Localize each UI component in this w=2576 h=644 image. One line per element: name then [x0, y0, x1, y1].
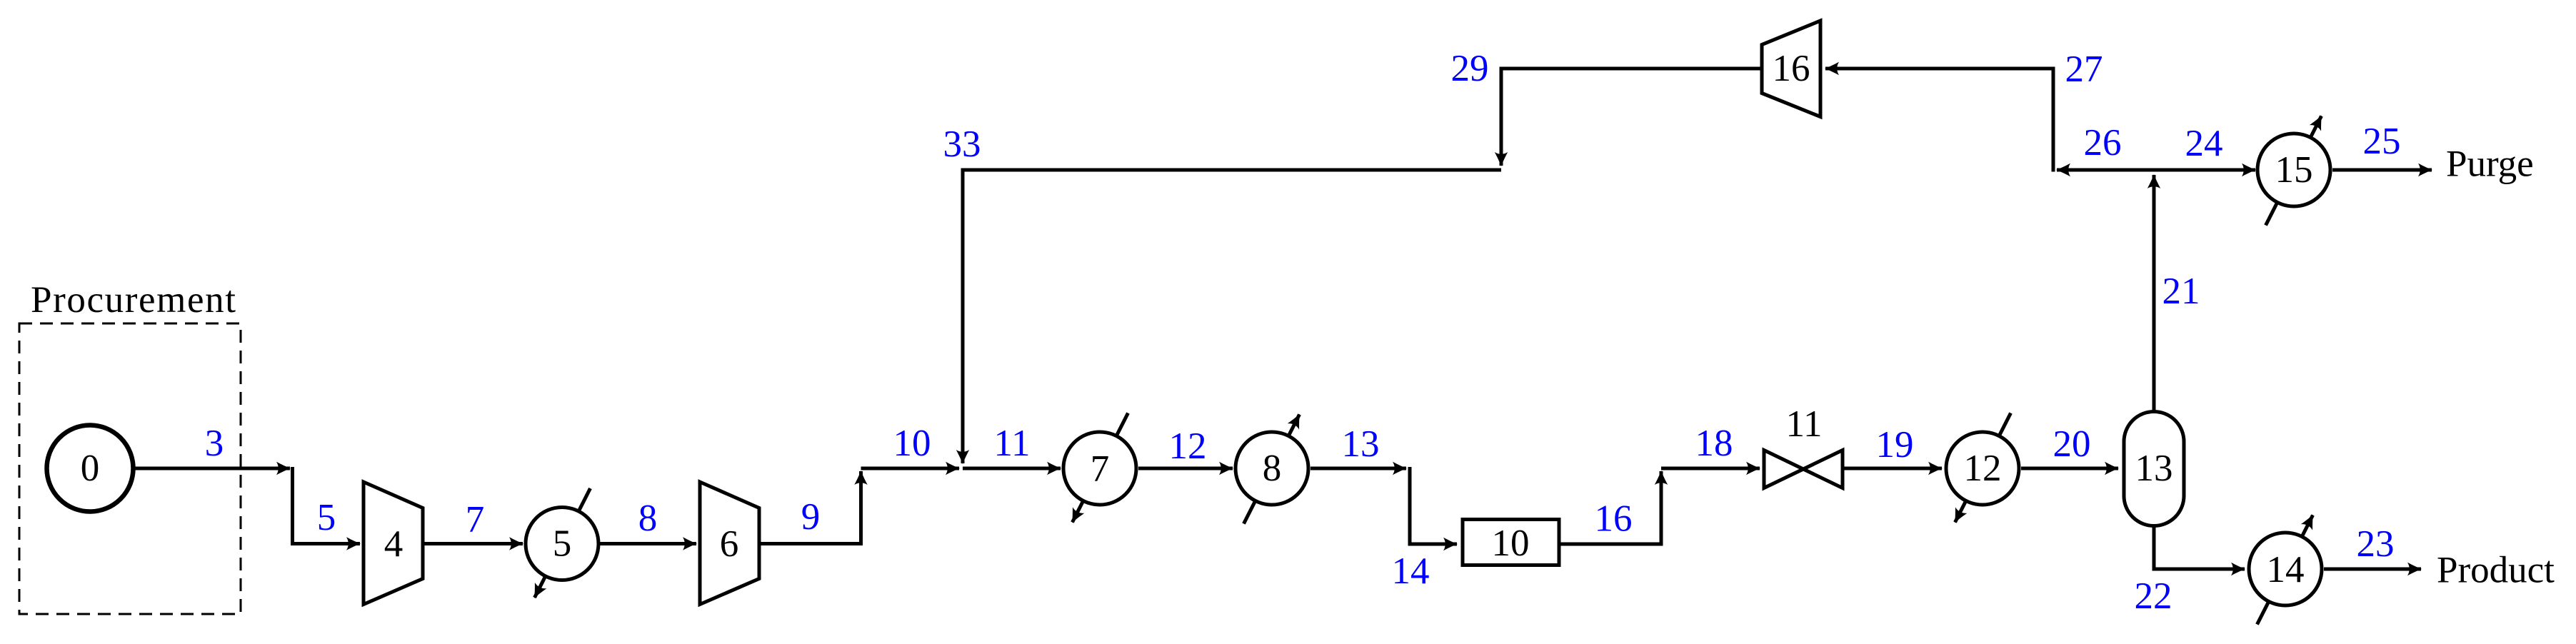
svg-text:19: 19 [1876, 424, 1914, 466]
wire stream 22 drum bottom to heater 14 [2154, 526, 2245, 569]
cooler 12 heat-out arrow bottom-left [1955, 500, 1966, 522]
heater 14 circle [2249, 533, 2322, 605]
svg-text:13: 13 [2135, 448, 2173, 489]
cooler 7 heat-out arrow bottom-left [1073, 500, 1083, 522]
svg-text:13: 13 [1342, 423, 1380, 465]
svg-text:14: 14 [1392, 550, 1430, 592]
wire stream 23 to Product [2324, 568, 2421, 571]
svg-text:11: 11 [1785, 403, 1822, 445]
valve 11 bowtie [1764, 451, 1843, 488]
wire stream 29 from compressor 16 left, down onto recycle line [1501, 69, 1761, 166]
svg-text:21: 21 [2162, 271, 2200, 312]
wire stream 12 [1138, 467, 1233, 471]
heater 15 heat-in arrow top-right [2310, 116, 2321, 138]
svg-text:Procurement: Procurement [31, 279, 236, 321]
cooler 5 tick top-right [578, 488, 590, 511]
wire stream 11 junction to cooler 7 [963, 467, 1061, 471]
svg-text:12: 12 [1169, 426, 1207, 467]
svg-text:10: 10 [893, 423, 931, 464]
svg-text:7: 7 [1091, 448, 1110, 490]
svg-text:8: 8 [1263, 448, 1282, 489]
wire stream 18 into valve [1661, 467, 1760, 471]
wire stream 24 junction to heater 15 [2154, 168, 2255, 172]
svg-text:24: 24 [2185, 123, 2223, 164]
heater 15 circle [2257, 134, 2330, 206]
svg-text:16: 16 [1595, 498, 1633, 540]
wire stream 8 [598, 542, 696, 545]
svg-text:12: 12 [1964, 448, 2002, 489]
wire stream 13 to corner [1310, 467, 1406, 471]
compressor 4 [364, 482, 423, 605]
svg-text:16: 16 [1773, 48, 1810, 89]
svg-text:26: 26 [2084, 122, 2122, 163]
wire stream 27 up and left into compressor 16 [1825, 69, 2053, 172]
svg-text:18: 18 [1695, 423, 1733, 464]
wire stream 33 recycle: left along top then down to junction [963, 170, 1501, 463]
flash drum 13 capsule [2124, 412, 2184, 526]
wire stream 9 elbow up [759, 471, 861, 544]
heater 14 heat-in arrow top-right [2302, 515, 2312, 537]
node Procurement box (dashed battery-limit rectangle) [19, 323, 241, 614]
svg-text:Purge: Purge [2446, 144, 2534, 185]
svg-text:9: 9 [801, 496, 821, 538]
heater 14 tick bottom-left [2257, 601, 2269, 624]
wire stream 14 elbow down into reactor 10 [1410, 467, 1457, 544]
svg-text:5: 5 [553, 523, 572, 565]
heater 8 tick bottom-left [1244, 500, 1256, 523]
svg-text:11: 11 [993, 423, 1030, 464]
svg-text:25: 25 [2363, 121, 2401, 162]
svg-text:0: 0 [81, 448, 100, 489]
svg-text:8: 8 [638, 498, 658, 539]
svg-text:33: 33 [943, 124, 981, 165]
svg-text:27: 27 [2065, 49, 2103, 90]
cooler 7 circle [1063, 432, 1136, 505]
svg-text:4: 4 [384, 523, 404, 565]
wire stream 3 horizontal [134, 467, 290, 471]
wire stream 21 up from drum to splitter junction [2152, 175, 2156, 411]
heater 15 tick bottom-left [2266, 202, 2277, 225]
cooler 5 heat-out arrow bottom-left [535, 576, 546, 598]
cooler 12 circle [1946, 432, 2019, 505]
cooler 7 tick top-right [1116, 413, 1128, 436]
compressor 6 [700, 482, 759, 605]
svg-text:Product: Product [2437, 550, 2555, 591]
svg-text:6: 6 [720, 523, 739, 565]
wire stream 10 [861, 467, 960, 471]
svg-text:10: 10 [1492, 523, 1530, 564]
svg-text:5: 5 [317, 497, 336, 538]
heater 8 heat-in arrow top-right [1288, 415, 1299, 436]
source node 0 [47, 426, 134, 512]
cooler 12 tick top-right [1999, 413, 2010, 436]
svg-text:15: 15 [2275, 149, 2313, 191]
svg-text:23: 23 [2357, 523, 2395, 565]
svg-text:14: 14 [2267, 549, 2305, 590]
wire stream 26 junction going left [2057, 168, 2154, 172]
heater 8 circle [1236, 432, 1308, 505]
svg-text:3: 3 [205, 423, 224, 464]
wire stream 25 to Purge [2332, 168, 2432, 172]
cooler 5 circle [526, 508, 598, 580]
wire stream 19 [1843, 467, 1942, 471]
svg-text:22: 22 [2135, 575, 2172, 617]
wire stream 16 elbow up [1560, 471, 1661, 544]
svg-text:7: 7 [466, 499, 485, 540]
wire stream 3/5 elbow down into compressor 4 [293, 467, 361, 544]
svg-text:29: 29 [1451, 48, 1489, 89]
svg-text:20: 20 [2053, 423, 2091, 465]
compressor 16 [1762, 21, 1820, 117]
wire stream 7 [423, 542, 523, 545]
reactor box 10 [1463, 520, 1559, 565]
wire stream 20 into flash drum [2021, 467, 2118, 471]
